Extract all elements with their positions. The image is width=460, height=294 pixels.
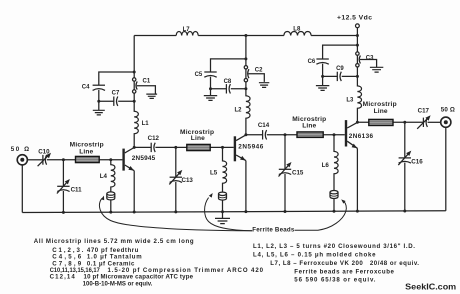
node C7/L1 junction xyxy=(133,100,136,103)
node Q3 collector junction xyxy=(356,121,359,124)
ground at C1 xyxy=(146,94,157,98)
svg-text:50 Ω: 50 Ω xyxy=(441,107,455,114)
svg-text:C1: C1 xyxy=(143,79,151,85)
svg-text:C17: C17 xyxy=(418,107,430,114)
svg-text:50 Ω: 50 Ω xyxy=(11,146,29,153)
svg-text:2N5945: 2N5945 xyxy=(132,155,156,162)
node C16 tap xyxy=(403,121,406,124)
node C11 tap xyxy=(62,158,65,161)
wire collector to C14 xyxy=(246,134,262,136)
svg-text:Line: Line xyxy=(374,108,388,115)
wire leader to bead 2 xyxy=(205,193,253,231)
node C4/C7 junction xyxy=(97,100,100,103)
wire stage3 feed drop xyxy=(356,36,358,52)
+12.5 Vdc supply terminal xyxy=(337,14,372,35)
node rail junction at supply xyxy=(356,34,359,37)
svg-text:100-B-10-M-MS or equiv.: 100-B-10-M-MS or equiv. xyxy=(83,280,153,287)
note C4,5,6 xyxy=(52,254,142,261)
svg-text:Line: Line xyxy=(302,123,316,130)
node C5/C8 junction xyxy=(209,87,212,90)
svg-text:Line: Line xyxy=(191,135,205,142)
ferrite bead on L4 xyxy=(107,192,115,200)
node C6/C9 junction xyxy=(321,75,324,78)
wire input to C10 xyxy=(27,159,42,161)
node L4 tap xyxy=(109,158,112,161)
capacitor C2 (feedthru) xyxy=(244,66,264,82)
capacitor C12 xyxy=(148,135,160,152)
svg-text:C9: C9 xyxy=(336,66,344,72)
wire input drop to ground rail xyxy=(21,165,23,213)
svg-text:All Microstrip lines 5.72 mm w: All Microstrip lines 5.72 mm wide 2.5 cm… xyxy=(34,238,194,245)
svg-text:56 590 65/38 or equiv.: 56 590 65/38 or equiv. xyxy=(294,277,375,284)
wire to C6 xyxy=(323,45,358,59)
node C8/L2 junction xyxy=(244,87,247,90)
capacitor C5 xyxy=(195,72,217,89)
wire C10 to Q1 base xyxy=(47,159,123,161)
ground at C2 xyxy=(259,83,269,88)
capacitor C11 (variable shunt) xyxy=(57,160,82,213)
svg-text:Ferrite beads are Ferroxcube: Ferrite beads are Ferroxcube xyxy=(294,269,394,276)
node Q1 collector junction xyxy=(133,146,136,149)
node rail L4 xyxy=(109,211,112,214)
inductor L6 xyxy=(322,135,339,212)
svg-text:C2: C2 xyxy=(255,68,263,74)
capacitor C14 xyxy=(258,122,270,140)
inductor L2 xyxy=(234,82,250,135)
transistor Q3 2N6136 xyxy=(346,120,374,148)
wire to C5 xyxy=(211,59,246,72)
node rail C11 xyxy=(62,211,65,214)
wire Q2 emitter to ground rail xyxy=(245,161,247,212)
svg-text:C12,14: C12,14 xyxy=(50,274,76,281)
transistor Q2 2N5946 xyxy=(235,135,264,161)
svg-text:C16: C16 xyxy=(411,159,423,166)
output connector 50 ohm xyxy=(441,107,455,128)
capacitor C4 xyxy=(82,84,105,101)
svg-text:C8: C8 xyxy=(224,79,232,85)
microstrip line 2 xyxy=(180,129,214,150)
capacitor C13 (variable shunt) xyxy=(169,147,193,212)
node L6 tap xyxy=(333,133,336,136)
svg-text:+12.5 Vdc: +12.5 Vdc xyxy=(337,14,372,21)
svg-text:L1, L2, L3 – 5 turns #20 Close: L1, L2, L3 – 5 turns #20 Closewound 3/16… xyxy=(253,243,415,250)
svg-text:L5: L5 xyxy=(210,169,218,176)
wire leader to bead 1 xyxy=(99,196,252,231)
capacitor C1 (feedthru) xyxy=(133,78,156,94)
wire output drop to ground rail xyxy=(445,127,447,211)
svg-text:C11: C11 xyxy=(71,186,83,193)
wire leader to bead 3 xyxy=(295,199,347,230)
wire collector to C12 xyxy=(134,146,151,148)
node rail Q2 emitter xyxy=(244,210,247,213)
inductor L7 xyxy=(176,27,198,35)
svg-text:L7: L7 xyxy=(183,27,191,33)
node stage1 feed junction xyxy=(133,71,136,74)
svg-text:C14: C14 xyxy=(258,122,270,129)
node rail Q3 emitter xyxy=(356,210,359,213)
transistor Q1 2N5945 xyxy=(124,148,156,171)
wire Q1 emitter to ground rail xyxy=(133,171,135,212)
svg-text:L6: L6 xyxy=(322,162,330,169)
svg-text:SeekIC.com: SeekIC.com xyxy=(405,282,456,291)
wire to C4 xyxy=(99,72,134,85)
capacitor C6 xyxy=(308,59,329,76)
svg-text:C12: C12 xyxy=(148,135,160,142)
ground at C4 xyxy=(93,101,105,115)
svg-text:C15: C15 xyxy=(292,169,304,176)
node stage2 feed junction xyxy=(244,57,247,60)
svg-text:2N6136: 2N6136 xyxy=(349,133,374,140)
node rail L5 xyxy=(221,210,224,213)
node Q2 collector junction xyxy=(244,133,247,136)
svg-text:L2: L2 xyxy=(234,108,242,114)
capacitor C3 (feedthru) xyxy=(356,52,377,67)
svg-text:C13: C13 xyxy=(182,177,194,184)
capacitor C15 (variable shunt) xyxy=(279,135,304,212)
node rail C16 xyxy=(403,209,406,212)
ferrite bead on L5 xyxy=(219,192,227,200)
note C1,2,3 xyxy=(52,247,138,254)
ferrite beads callout label xyxy=(252,227,295,234)
node rail L6 xyxy=(333,210,336,213)
microstrip line 1 xyxy=(70,142,104,163)
note C7,8,9 xyxy=(52,260,135,267)
svg-text:Line: Line xyxy=(79,149,93,156)
node L5 tap xyxy=(221,146,224,149)
wire stage2 feed drop xyxy=(245,36,247,66)
node C9/L3 junction xyxy=(356,75,359,78)
node rail junction at L2 feed xyxy=(244,34,247,37)
node C13 tap xyxy=(174,146,177,149)
wire stage1 feed drop xyxy=(133,36,135,78)
inductor L8 xyxy=(284,27,311,36)
wire bottom ground rail xyxy=(22,211,446,213)
wire C12 to Q2 base xyxy=(155,146,233,148)
svg-text:L8: L8 xyxy=(293,27,301,33)
capacitor C10 (variable) xyxy=(38,148,51,166)
ground at C5 xyxy=(204,89,217,101)
node C15 tap xyxy=(284,133,287,136)
note C12,14 xyxy=(50,274,194,281)
node rail Q1 emitter xyxy=(133,211,136,214)
node rail C15 xyxy=(284,210,287,213)
ground at C3 xyxy=(370,67,383,72)
svg-text:L4, L5, L6 – 0.15 μh molded ch: L4, L5, L6 – 0.15 μh molded choke xyxy=(253,252,376,259)
wire top supply rail xyxy=(134,35,357,37)
capacitor C8 xyxy=(211,79,246,94)
svg-text:L1: L1 xyxy=(142,121,150,127)
inductor L1 xyxy=(134,93,149,147)
svg-text:L4: L4 xyxy=(100,173,108,180)
svg-text:Ferrite Beads: Ferrite Beads xyxy=(252,227,295,234)
svg-text:2N5946: 2N5946 xyxy=(238,143,263,150)
svg-text:C3: C3 xyxy=(366,55,374,61)
inductor L5 xyxy=(210,147,227,211)
ground below rail at L5 xyxy=(215,212,230,224)
input connector 50 ohm xyxy=(11,146,29,165)
microstrip line 4 xyxy=(363,101,397,125)
capacitor C9 xyxy=(323,66,358,81)
microstrip line 3 xyxy=(292,116,326,138)
note C10 trimmers xyxy=(50,267,264,274)
wire C17 to output connector xyxy=(428,121,441,123)
svg-text:L3: L3 xyxy=(346,97,354,103)
capacitor C16 (variable shunt) xyxy=(398,122,423,211)
svg-text:L7, L8 – Ferroxcube VK 200 2: L7, L8 – Ferroxcube VK 200 20/48 or equi… xyxy=(270,260,419,267)
svg-text:Microstrip: Microstrip xyxy=(70,142,104,149)
svg-text:C6: C6 xyxy=(308,59,316,65)
wire collector to output xyxy=(357,121,423,123)
ground at C6 xyxy=(316,76,329,90)
inductor L4 xyxy=(100,160,115,212)
svg-text:C10: C10 xyxy=(38,148,50,155)
svg-text:C4: C4 xyxy=(82,84,90,90)
node stage3 feed junction xyxy=(356,44,359,47)
ferrite bead on L6 xyxy=(330,191,338,199)
svg-text:C5: C5 xyxy=(195,72,203,78)
capacitor C17 (variable) xyxy=(417,107,430,129)
capacitor C7 xyxy=(99,90,134,106)
wire C14 to Q3 base xyxy=(267,134,345,136)
inductor L3 xyxy=(346,67,361,122)
wire Q3 emitter to ground rail xyxy=(356,148,358,211)
svg-text:C7: C7 xyxy=(112,90,120,96)
node rail C13 xyxy=(174,210,177,213)
